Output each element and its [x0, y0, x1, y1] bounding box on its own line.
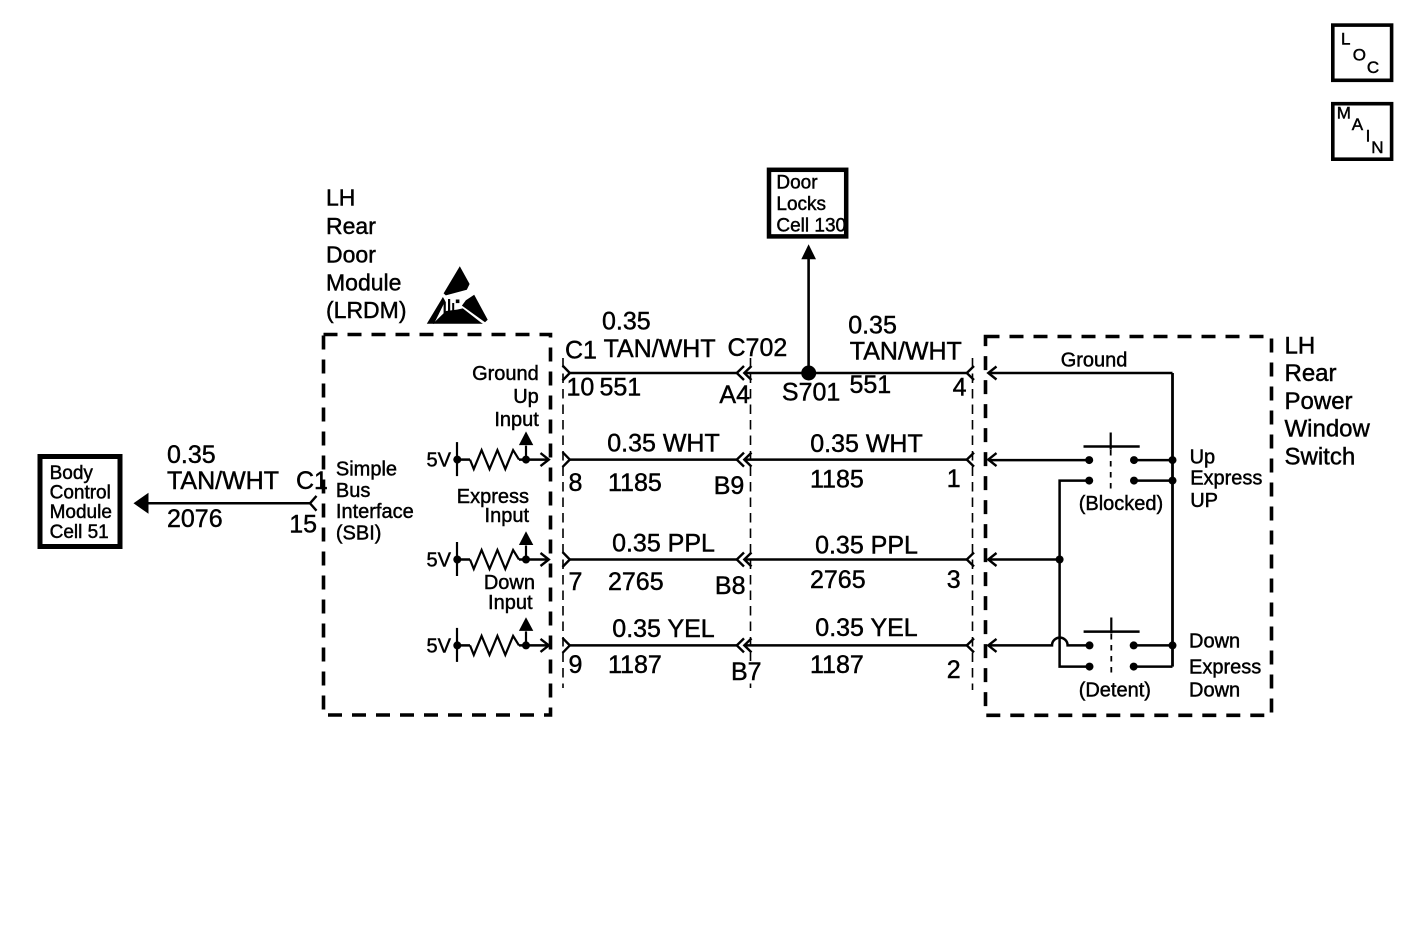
connector chevron switch row4: [967, 638, 974, 652]
svg-text:Cell 51: Cell 51: [50, 522, 109, 543]
connector C702 dashed line: [750, 358, 752, 688]
wire Down row with hop: [988, 638, 1089, 646]
connector chevron C702 right row1: [744, 366, 751, 380]
svg-text:2076: 2076: [167, 505, 223, 533]
page tab text MAIN: [1337, 104, 1384, 158]
switch pin arrowhead row3: [988, 553, 996, 566]
svg-text:1185: 1185: [608, 469, 662, 497]
switch actuator dashed link lower: [1110, 634, 1112, 678]
contact dot Down left: [1086, 641, 1094, 649]
signal up arrowhead row4: [519, 617, 533, 631]
svg-text:15: 15: [289, 510, 317, 538]
input label Down Input row4: [484, 572, 535, 614]
svg-text:Down: Down: [484, 572, 535, 594]
svg-text:Switch: Switch: [1285, 443, 1356, 470]
page tab box LOC: [1333, 25, 1392, 80]
junction dot 5V row3: [453, 556, 461, 564]
connector chevron C702 left row2: [737, 453, 744, 467]
svg-text:Locks: Locks: [776, 194, 826, 215]
wire Express UP contact to rail: [1134, 479, 1173, 482]
contact dot Express UP right: [1130, 477, 1138, 485]
svg-text:L: L: [1341, 30, 1350, 49]
5V supply tick row3: [456, 542, 458, 576]
wire row1 right half C702 to switch: [745, 372, 968, 375]
svg-text:0.35 PPL: 0.35 PPL: [612, 530, 715, 558]
svg-text:Ground: Ground: [472, 363, 539, 385]
wire 5V to resistor row2: [457, 458, 470, 461]
signal up arrow stem row2: [525, 446, 527, 460]
svg-text:Rear: Rear: [326, 213, 376, 239]
svg-text:LH: LH: [326, 185, 355, 211]
white gap for B7 over dashed line: [747, 661, 755, 682]
svg-text:B9: B9: [714, 472, 745, 500]
switch pin arrowhead row4: [988, 639, 996, 652]
switch pin arrowhead row2: [988, 453, 996, 466]
svg-text:Module: Module: [50, 502, 112, 523]
svg-text:2: 2: [947, 656, 961, 684]
junction dot PPL center rail: [1056, 556, 1064, 564]
svg-text:1185: 1185: [810, 466, 864, 494]
svg-text:C702: C702: [728, 334, 788, 362]
svg-text:0.35 YEL: 0.35 YEL: [612, 615, 715, 643]
contact dot Down right: [1130, 641, 1138, 649]
svg-text:Up: Up: [513, 386, 539, 408]
svg-text:S701: S701: [782, 379, 840, 407]
module box text: Door Locks Cell 130: [776, 172, 846, 236]
contact dot Up left: [1085, 456, 1093, 464]
wire row2 right half C702 to switch: [745, 458, 968, 461]
switch actuator bar lower (Detent): [1084, 630, 1140, 633]
switch actuator bar upper (Blocked): [1084, 445, 1140, 448]
wire Down contact to rail: [1134, 644, 1173, 647]
module edge arrowhead row4: [541, 639, 549, 652]
svg-text:0.35 WHT: 0.35 WHT: [810, 430, 923, 458]
junction dot Down rail: [1169, 641, 1177, 649]
switch connector dashed line: [972, 358, 974, 690]
splice S701: [801, 366, 816, 381]
connector chevron C702 left row3: [737, 553, 744, 567]
switch label Express Down: [1189, 657, 1261, 702]
svg-text:(LRDM): (LRDM): [326, 297, 407, 323]
contact dot Express Down left: [1086, 663, 1094, 671]
svg-text:Up: Up: [1190, 447, 1216, 469]
svg-text:Power: Power: [1285, 388, 1353, 415]
arrowhead into BCM: [134, 493, 149, 514]
wire Up row to contact: [988, 459, 1089, 462]
svg-text:(Detent): (Detent): [1079, 680, 1151, 702]
wire Up contact to rail: [1134, 459, 1173, 462]
module box: Body Control Module Cell 51: [40, 457, 120, 547]
page tab text LOC: [1341, 30, 1379, 77]
connector chevron C702 left row1: [737, 366, 744, 380]
svg-text:0.35: 0.35: [848, 311, 897, 339]
svg-text:TAN/WHT: TAN/WHT: [167, 467, 279, 495]
svg-text:Interface: Interface: [336, 501, 414, 523]
connector chevron C702 right row2: [744, 453, 751, 467]
svg-text:TAN/WHT: TAN/WHT: [850, 337, 962, 365]
wire resistor to module edge row2: [519, 458, 549, 461]
wire resistor to module edge row4: [519, 644, 549, 647]
5V supply tick row2: [456, 442, 458, 476]
resistor pull-up row2: [470, 450, 519, 469]
svg-text:Bus: Bus: [336, 480, 370, 502]
svg-text:(Blocked): (Blocked): [1079, 493, 1163, 515]
connector chevron C1 row1: [563, 366, 570, 381]
junction dot output row4: [522, 641, 530, 649]
wire row3 left half C1 to C702: [570, 558, 737, 561]
svg-text:1187: 1187: [810, 651, 864, 679]
svg-text:7: 7: [569, 568, 583, 596]
wire row4 left half C1 to C702: [570, 644, 737, 647]
svg-text:5V: 5V: [427, 550, 452, 572]
wire resistor to module edge row3: [519, 558, 549, 561]
switch label Express UP: [1190, 467, 1262, 512]
svg-text:C1: C1: [565, 337, 597, 365]
svg-text:1: 1: [947, 465, 961, 493]
contact dot Express Down right: [1130, 663, 1138, 671]
wire label 0.35 TAN/WHT C1: [167, 441, 328, 495]
svg-text:0.35 YEL: 0.35 YEL: [815, 614, 918, 642]
SBI label text Simple Bus Interface (SBI): [336, 458, 414, 544]
svg-text:B8: B8: [715, 572, 746, 600]
svg-text:5V: 5V: [427, 635, 452, 657]
svg-text:3: 3: [947, 566, 961, 594]
svg-text:8: 8: [569, 469, 583, 497]
svg-text:I: I: [1366, 127, 1371, 146]
switch actuator tick upper: [1110, 433, 1112, 450]
junction dot output row2: [522, 456, 530, 464]
wire row4 right half C702 to switch: [745, 644, 968, 647]
connector chevron C1 row2: [563, 452, 570, 467]
svg-text:9: 9: [569, 651, 583, 679]
wire row3 right half C702 to switch: [745, 558, 968, 561]
connector chevron switch row1: [967, 366, 974, 380]
signal up arrow stem row4: [525, 631, 527, 645]
svg-text:2765: 2765: [608, 568, 664, 596]
svg-text:A: A: [1352, 115, 1364, 134]
connector chevron C702 right row4: [744, 638, 751, 652]
svg-text:1187: 1187: [608, 651, 662, 679]
LRDM module dashed outline: [324, 335, 551, 716]
connector chevron C1 row3: [563, 552, 570, 567]
svg-text:10: 10: [567, 374, 595, 402]
svg-text:Input: Input: [488, 592, 533, 614]
junction dot 5V row2: [453, 456, 461, 464]
connector chevron switch row2: [967, 453, 974, 467]
svg-text:Ground: Ground: [1061, 349, 1128, 371]
svg-text:551: 551: [600, 374, 642, 402]
svg-text:Express: Express: [1190, 467, 1262, 489]
page tab box MAIN: [1333, 104, 1392, 160]
signal up arrowhead row3: [519, 531, 533, 545]
svg-text:0.35: 0.35: [602, 308, 651, 336]
svg-text:Module: Module: [326, 270, 401, 296]
connector chevron C702 right row3: [744, 553, 751, 567]
wire PPL row to center rail: [988, 558, 1059, 561]
contact dot Up right: [1130, 456, 1138, 464]
svg-text:Cell 130: Cell 130: [776, 216, 846, 237]
svg-text:0.35 WHT: 0.35 WHT: [607, 430, 720, 458]
svg-text:LH: LH: [1285, 332, 1316, 359]
wire row1 left half C1 to C702: [570, 372, 737, 375]
wire 5V to resistor row3: [457, 558, 470, 561]
svg-text:Control: Control: [50, 482, 111, 503]
switch right rail: [1171, 373, 1174, 667]
junction dot 5V row4: [453, 641, 461, 649]
svg-text:C1: C1: [296, 467, 328, 495]
svg-text:Door: Door: [776, 172, 818, 193]
svg-text:M: M: [1337, 104, 1351, 123]
svg-text:B7: B7: [731, 658, 762, 686]
signal up arrow stem row3: [525, 546, 527, 560]
module box text: Body Control Module Cell 51: [50, 463, 112, 543]
resistor pull-up row3: [470, 550, 519, 569]
svg-text:5V: 5V: [427, 450, 452, 472]
svg-text:TAN/WHT: TAN/WHT: [604, 335, 716, 363]
svg-text:A4: A4: [719, 381, 750, 409]
module edge arrowhead row2: [541, 453, 549, 466]
arrowhead to Door Locks: [801, 244, 816, 259]
wire row2 left half C1 to C702: [570, 458, 737, 461]
svg-text:(SBI): (SBI): [336, 523, 382, 545]
svg-text:Window: Window: [1285, 416, 1371, 443]
svg-text:0.35 PPL: 0.35 PPL: [815, 532, 918, 560]
svg-text:Down: Down: [1189, 680, 1240, 702]
connector C1 dashed line: [562, 358, 564, 688]
svg-text:O: O: [1353, 45, 1366, 64]
module box: Door Locks Cell 130: [769, 170, 846, 237]
LRDM header text LH Rear Door Module (LRDM): [326, 185, 407, 323]
junction dot Express UP rail: [1169, 477, 1177, 485]
connector chevron C1 row4: [563, 638, 570, 653]
svg-text:N: N: [1371, 138, 1383, 157]
switch actuator tick lower: [1110, 618, 1112, 634]
svg-text:Down: Down: [1189, 630, 1240, 652]
junction dot Up rail: [1169, 456, 1177, 464]
svg-text:0.35: 0.35: [167, 441, 216, 469]
svg-text:2765: 2765: [810, 566, 866, 594]
switch pin arrowhead row1: [988, 367, 996, 380]
svg-text:Rear: Rear: [1285, 360, 1337, 387]
LH Rear Power Window Switch dashed outline: [986, 337, 1272, 716]
svg-text:UP: UP: [1190, 490, 1218, 512]
svg-text:4: 4: [953, 374, 967, 402]
signal up arrowhead row2: [519, 431, 533, 445]
junction dot output row3: [522, 556, 530, 564]
svg-text:Simple: Simple: [336, 458, 397, 480]
svg-text:Express: Express: [1189, 657, 1261, 679]
switch actuator dashed link upper: [1110, 450, 1112, 492]
wire 5V to resistor row4: [457, 644, 470, 647]
connector chevron switch row3: [967, 553, 974, 567]
switch ground wire: [988, 372, 1172, 375]
svg-text:551: 551: [850, 371, 892, 399]
svg-text:Body: Body: [50, 463, 94, 484]
input label Up Input row2: [494, 386, 539, 431]
svg-text:Input: Input: [494, 409, 539, 431]
connector chevron C702 left row4: [737, 638, 744, 652]
resistor pull-up row4: [470, 636, 519, 655]
svg-text:C: C: [1367, 58, 1379, 77]
module edge arrowhead row3: [541, 553, 549, 566]
switch header text LH Rear Power Window Switch: [1285, 332, 1371, 470]
wire S701 to Door Locks arrow: [807, 258, 810, 373]
contact dot Express UP left: [1085, 477, 1093, 485]
wire BCM to C1 pin 15 (0.35 TAN/WHT 2076): [147, 502, 311, 505]
connector chevron at pin 15: [310, 496, 317, 511]
5V supply tick row4: [456, 628, 458, 662]
svg-text:Door: Door: [326, 241, 376, 267]
ESD sensitivity symbol: [427, 266, 488, 324]
input label Express Input row3: [457, 486, 530, 527]
svg-text:Input: Input: [485, 505, 530, 527]
wire Express Down contact to rail: [1134, 665, 1173, 668]
wire Express UP contact to corner: [1060, 481, 1090, 667]
